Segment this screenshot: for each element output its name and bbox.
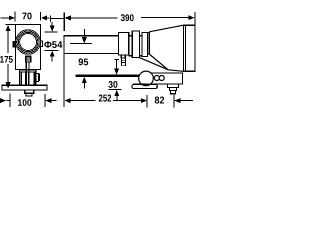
dimension 95 label: [78, 57, 89, 68]
neck bottom: [129, 55, 133, 57]
bracket strap: [76, 75, 140, 77]
dimension phi54 label: [44, 40, 63, 51]
svg-text:100: 100: [17, 97, 31, 108]
tube bottom: [64, 53, 119, 55]
dimension phi54 upper tick: [50, 16, 52, 23]
rear view box top extension: [6, 24, 16, 26]
dimension 100 label: [17, 97, 31, 108]
svg-text:175: 175: [0, 55, 14, 66]
horn mouth inner line: [184, 25, 186, 71]
pedestal center rod: [26, 62, 29, 85]
horn top flare: [149, 25, 183, 32]
horn bottom to mouth: [168, 70, 183, 72]
horn mouth flange: [183, 25, 195, 71]
base foot lower: [26, 93, 32, 96]
rear view left tab: [13, 42, 15, 47]
collar screw notch: [121, 55, 125, 58]
stud thread: [171, 91, 176, 94]
pedestal left block: [19, 72, 25, 85]
dimension 95 bottom arrow: [82, 77, 87, 89]
throat top: [148, 32, 150, 34]
dimension 82 right arrow: [174, 95, 193, 107]
throat bottom: [148, 53, 150, 55]
ring two: [132, 31, 139, 58]
dimension 175 bottom arrow: [6, 64, 11, 89]
dimension 30 top arrow: [114, 60, 119, 75]
hanging screw thread: [122, 58, 126, 66]
base plate: [2, 85, 47, 90]
dimension 175 top arrow: [6, 25, 11, 53]
bracket pivot circle: [139, 71, 154, 86]
side view upper extension line: [63, 12, 65, 31]
rear view box: [16, 25, 41, 70]
collar ring: [119, 32, 129, 55]
dimension 70 label: [22, 11, 32, 22]
svg-text:95: 95: [78, 57, 89, 68]
throat root vertical: [148, 32, 150, 54]
wire link to 390 tick: [51, 18, 64, 20]
screw below circle: [26, 56, 31, 62]
rear view right tab: [40, 41, 42, 46]
dimension 30 label: [108, 80, 118, 91]
horn bottom flare outer: [139, 58, 168, 70]
dimension 252 left arrow: [64, 98, 95, 103]
stud nut: [168, 84, 179, 88]
svg-text:82: 82: [154, 95, 164, 106]
pedestal side tab: [36, 73, 40, 81]
bracket body: [149, 73, 183, 84]
dimension 252 label: [98, 93, 111, 104]
pedestal right block: [29, 72, 36, 85]
dimension 70 left arrow: [1, 12, 16, 22]
dimension 390 right arrow: [141, 12, 195, 25]
base foot upper: [25, 90, 34, 93]
speaker ring circles: [16, 30, 41, 55]
svg-text:252: 252: [98, 93, 111, 104]
dimension 82 label: [154, 95, 164, 106]
dimension 390 label: [121, 13, 134, 24]
svg-text:390: 390: [121, 13, 134, 24]
ring three: [142, 33, 148, 57]
dimension 100 right arrow: [45, 94, 56, 107]
dimension 252 right arrow: [113, 95, 147, 107]
dimension 30 bottom arrow: [109, 89, 122, 100]
side view rear vertical line: [63, 35, 65, 107]
connector bottom: [139, 55, 142, 57]
horn bottom flare inner: [149, 54, 168, 70]
dimension phi54 top arrow: [45, 22, 58, 32]
connector top: [139, 35, 142, 37]
bracket foot pad: [132, 84, 157, 88]
bracket hole right: [159, 76, 164, 81]
tube top: [64, 35, 119, 37]
dimension 100 left arrow: [0, 93, 10, 107]
dimension 70 right arrow: [40, 12, 49, 21]
svg-text:Φ54: Φ54: [44, 40, 63, 51]
dimension phi54 bottom arrow: [45, 50, 59, 61]
neck top: [129, 35, 133, 37]
svg-text:70: 70: [22, 11, 32, 22]
dimension 95 top arrow: [70, 29, 92, 44]
pedestal top bar: [19, 70, 35, 72]
dimension 390 left arrow: [65, 15, 118, 20]
bracket hole left: [154, 76, 159, 81]
dimension 175 label: [0, 55, 14, 66]
stud washer: [170, 88, 177, 91]
